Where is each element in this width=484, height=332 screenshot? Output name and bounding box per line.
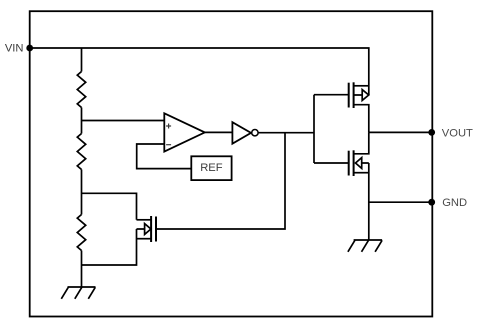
wire R1-R2 — [81, 108, 83, 134]
REF box — [191, 156, 231, 180]
M3 gate bar — [348, 151, 350, 176]
M2 channel bar — [353, 82, 355, 108]
wire tap1 to op-amp + — [82, 120, 165, 122]
resistor R2 — [77, 134, 85, 170]
pin dot GND — [428, 199, 435, 206]
wire R2-R3 — [81, 170, 83, 215]
inverter bubble — [252, 130, 258, 136]
M2 gate bar — [348, 83, 350, 108]
M3 body arrow — [356, 158, 369, 169]
M1 gate bar — [155, 217, 157, 242]
wire REF to op-amp - input — [137, 144, 192, 169]
transistor M3 — [349, 132, 369, 240]
wire GND — [369, 201, 432, 203]
wire gate stub bottom — [314, 162, 349, 164]
wire VOUT — [369, 131, 432, 133]
M3 source stub — [354, 172, 369, 174]
resistor R1 — [77, 72, 85, 108]
ground right — [348, 240, 382, 252]
M1 body arrow — [137, 224, 151, 235]
svg-text:VOUT: VOUT — [442, 128, 473, 140]
inverter U2 — [232, 122, 251, 144]
gate bus — [313, 95, 315, 163]
wire op-amp out to inverter — [205, 131, 233, 133]
wire R3 to ground — [81, 251, 83, 288]
pin dot VIN — [26, 45, 33, 52]
M2 body arrow — [354, 90, 369, 101]
svg-text:REF: REF — [200, 162, 223, 174]
op-amp - mark — [166, 144, 171, 146]
ground left — [61, 287, 95, 299]
wire gate stub top — [314, 94, 349, 96]
M2 drain stub — [354, 105, 369, 133]
op-amp + mark — [166, 124, 171, 129]
wire box top — [82, 193, 137, 220]
resistor R3 — [77, 215, 85, 251]
M3 source down wire — [368, 163, 370, 240]
wire VIN to divider — [81, 48, 83, 72]
wire VIN rail — [30, 48, 369, 95]
wire node to M1 gate — [156, 133, 285, 229]
IC boundary box — [30, 11, 433, 316]
op-amp U1 — [164, 113, 205, 151]
svg-text:GND: GND — [442, 197, 467, 209]
transistor M1 — [137, 216, 157, 242]
transistor M2 — [349, 82, 369, 132]
wire inverter out to gate bus — [258, 132, 314, 134]
M2 source stub — [354, 85, 369, 87]
M3 channel bar — [353, 150, 355, 176]
M1 source stub — [137, 238, 152, 240]
svg-text:VIN: VIN — [5, 43, 24, 55]
pin dot VOUT — [428, 129, 435, 136]
M1 channel bar — [150, 216, 152, 242]
wire box bottom — [82, 229, 137, 265]
M3 drain stub — [354, 132, 369, 153]
M1 drain stub — [137, 219, 152, 221]
